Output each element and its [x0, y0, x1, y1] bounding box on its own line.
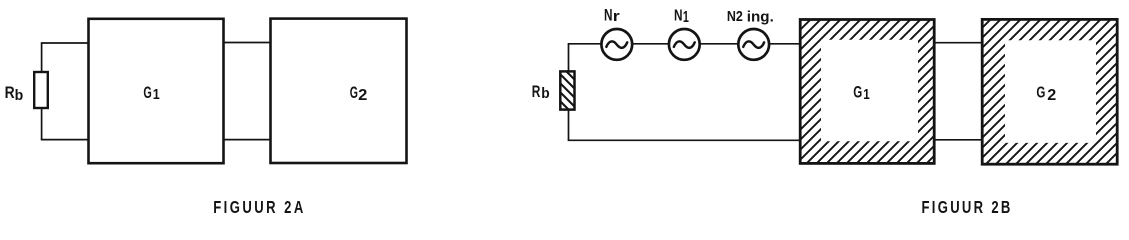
label N1: [674, 8, 689, 27]
amplifier box G2 hatched (figure 2B): [982, 19, 1117, 164]
box G2 (figure 2A): [271, 19, 407, 163]
svg-text:ing.: ing.: [747, 9, 774, 26]
svg-text:2: 2: [358, 87, 367, 104]
svg-text:1: 1: [683, 9, 689, 26]
svg-text:G: G: [853, 83, 862, 102]
svg-text:r: r: [613, 9, 620, 25]
wire Rb loop left vertical (figure 2B): [568, 44, 570, 141]
label G2 (figure 2B): [1036, 85, 1056, 104]
label Nr: [604, 5, 620, 25]
svg-text:FIGUUR 2B: FIGUUR 2B: [922, 198, 1013, 217]
svg-text:FIGUUR 2A: FIGUUR 2A: [213, 198, 306, 217]
wire Rb loop bottom: [41, 139, 89, 141]
svg-text:N2: N2: [727, 8, 743, 25]
wire G1-G2 top (figure 2A): [224, 42, 271, 44]
label Rb (figure 2A): [5, 83, 24, 104]
svg-text:G: G: [143, 84, 151, 102]
wire top (figure 2B): [568, 43, 801, 45]
svg-text:G: G: [1036, 85, 1045, 102]
svg-text:1: 1: [863, 86, 870, 103]
label N2 ing.: [727, 8, 774, 25]
svg-text:b: b: [541, 85, 549, 102]
amplifier box G1 hatched (figure 2B): [800, 20, 934, 164]
svg-text:N: N: [604, 5, 613, 24]
svg-text:R: R: [532, 83, 541, 101]
svg-text:1: 1: [153, 87, 160, 103]
resistor Rb (figure 2A): [34, 72, 48, 108]
svg-text:R: R: [5, 83, 15, 102]
noise source N2: [738, 29, 769, 60]
label G2 (figure 2A): [350, 84, 368, 104]
wire bottom (figure 2B): [568, 139, 801, 141]
noise source N1: [669, 29, 700, 60]
box G1 (figure 2A): [89, 19, 224, 163]
label G1 (figure 2A): [143, 84, 159, 103]
resistor Rb hatched (figure 2B): [560, 71, 574, 109]
label Rb (figure 2B): [532, 83, 550, 102]
wire Rb loop left vertical: [41, 43, 43, 140]
wire G1-G2 bottom (figure 2B): [934, 139, 982, 141]
wire G1-G2 top (figure 2B): [934, 42, 982, 44]
svg-text:G: G: [350, 84, 358, 102]
svg-text:b: b: [15, 87, 24, 104]
noise source Nr: [601, 29, 632, 60]
wire G1-G2 bottom (figure 2A): [224, 139, 271, 141]
svg-text:N: N: [674, 8, 683, 25]
svg-text:2: 2: [1047, 87, 1056, 104]
label G1 (figure 2B): [853, 83, 870, 103]
wire Rb loop top: [41, 42, 89, 44]
